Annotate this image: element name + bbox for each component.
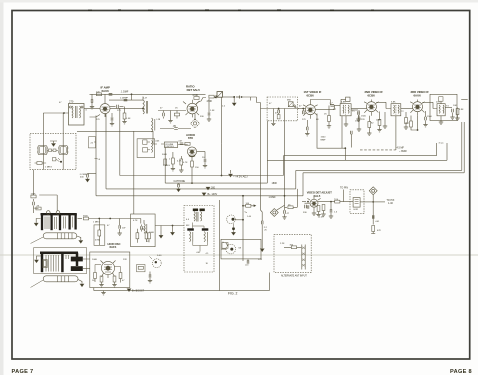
wire tuner out to V4 [298, 108, 306, 110]
hum adj label [229, 170, 249, 179]
svg-text:1 MEG: 1 MEG [45, 167, 52, 169]
svg-text:470K: 470K [95, 239, 101, 241]
svg-text:47: 47 [160, 108, 163, 110]
svg-text:TO PIN: TO PIN [340, 186, 348, 189]
coil top T6 [193, 209, 205, 222]
box on top T3 [341, 97, 350, 104]
svg-text:47: 47 [299, 106, 302, 108]
winding blob B [71, 266, 83, 271]
det out wire [318, 201, 335, 203]
wire width box to TP vertical [360, 201, 373, 203]
capacitor .1DMF on line [109, 91, 129, 96]
coil pair T7b [202, 228, 209, 241]
svg-text:270: 270 [436, 101, 440, 103]
coil L2 ratio det secondary [152, 118, 155, 132]
assorted value labels [59, 98, 464, 282]
svg-text:L27: L27 [144, 98, 148, 100]
svg-text:2.2K: 2.2K [319, 217, 324, 219]
svg-text:1500: 1500 [427, 116, 433, 118]
T4 bottom drop [395, 116, 397, 150]
width adjust dashed box [350, 190, 364, 214]
svg-text:470K: 470K [207, 100, 213, 103]
V4 grid parts below [305, 120, 309, 136]
tube V6 3rd video IF [410, 100, 425, 116]
tuner vertical down (to bottom section) [284, 109, 286, 196]
tube V3 audio 6T8 [187, 147, 196, 160]
svg-text:L20: L20 [245, 265, 249, 267]
cap 20MF [202, 152, 207, 168]
wire coil L2 to sound box [77, 130, 153, 132]
vert x219.4 [218, 200, 220, 291]
top link wires IF row [310, 100, 330, 106]
svg-text:470K: 470K [193, 94, 199, 97]
svg-text:T1: T1 [352, 111, 355, 113]
resistor 22 on L4 riser [89, 137, 101, 161]
resistor on audio takeoff [207, 95, 215, 103]
out wire right [461, 99, 468, 101]
AFC hanging resistors [94, 273, 122, 287]
svg-text:300: 300 [211, 186, 216, 189]
svg-text:6CB6: 6CB6 [368, 94, 376, 98]
AFC upper box [131, 214, 156, 247]
svg-text:CONTROL: CONTROL [165, 146, 174, 148]
twin lead symbol [302, 245, 305, 270]
cap on TP2 vertical [372, 215, 374, 219]
svg-text:1K: 1K [206, 263, 209, 265]
wire vertical left feed [42, 113, 44, 170]
wire plug to arrow [223, 96, 235, 98]
IF can T3 [340, 104, 351, 116]
left hook gnd bars2 [35, 256, 41, 263]
diamond TP3 [270, 209, 278, 217]
res 100K [137, 265, 145, 272]
cap .05 lower [160, 125, 191, 130]
svg-text:4.7: 4.7 [333, 109, 337, 111]
scan edge band top [0, 0, 478, 3]
diamond TP2 [369, 187, 377, 195]
capacitor .01 above T1 [90, 94, 94, 109]
ground arrow below dot [232, 97, 236, 106]
components right of V1: cap 270 [110, 105, 124, 109]
junction on L4 [284, 195, 286, 197]
svg-text:L6: L6 [98, 159, 101, 161]
svg-text:4.7K: 4.7K [183, 162, 188, 164]
svg-text:.1 CMF: .1 CMF [79, 174, 87, 176]
TP2 vertical [372, 195, 374, 225]
bus L2 riser from audio [164, 148, 166, 184]
yoke enclosure thin box [34, 248, 87, 274]
svg-text:2.2MMF: 2.2MMF [120, 97, 129, 99]
wire V1 plate up [104, 94, 106, 103]
svg-text:47: 47 [287, 213, 290, 215]
cap and res between coil and tube [158, 111, 186, 119]
svg-text:3 sec: 3 sec [439, 143, 445, 145]
svg-text:PAGE 7: PAGE 7 [12, 369, 34, 375]
wire res to width box [340, 201, 353, 203]
diag wire TP3 to tuner vert [277, 205, 285, 210]
peaking res [334, 199, 340, 203]
wire down to bus [221, 144, 223, 176]
diodes between sockets [47, 149, 58, 152]
svg-text:6T8: 6T8 [188, 136, 193, 140]
svg-text:10K: 10K [453, 105, 457, 107]
wire across afc top [131, 219, 144, 224]
svg-text:4.5: 4.5 [186, 219, 190, 221]
bus L3 [106, 122, 462, 189]
transformer T1 sound IF can [69, 104, 85, 126]
svg-text:270: 270 [69, 99, 74, 103]
cap 1500 after T3 [351, 110, 361, 123]
svg-text:.1 DMF: .1 DMF [121, 91, 129, 94]
pot symbol top [50, 141, 57, 146]
resistor 1.5K below right [122, 107, 126, 124]
cap with gnd [148, 272, 152, 283]
shield box with pot [137, 139, 155, 158]
gnd mid [159, 225, 174, 238]
node + cap after tuner [302, 108, 304, 115]
resistor on TP2 vertical [371, 226, 375, 234]
bus L2 cathode line [165, 121, 447, 183]
socket view S1 [227, 215, 252, 224]
input staircase wire [241, 97, 267, 109]
svg-text:L28: L28 [157, 119, 161, 121]
wire into bars [33, 208, 35, 213]
cyl C1 right tail [77, 236, 83, 243]
bus L4 riser [90, 116, 97, 196]
svg-text:22K: 22K [123, 259, 127, 261]
cyl C2 leader [31, 280, 44, 288]
wire left of T1 [43, 112, 68, 114]
wire T3 to V5 [351, 108, 366, 110]
V5 grid cap [357, 110, 366, 131]
coil turns between bars [45, 217, 73, 230]
volume control box [164, 142, 177, 148]
resistor drop 2 [169, 152, 175, 171]
svg-text:1500: 1500 [321, 137, 327, 139]
coil inside [144, 224, 147, 234]
res 300 inside [284, 245, 301, 249]
node dot T1 left [63, 112, 65, 114]
svg-text:270: 270 [117, 110, 121, 112]
wire V1 out to coils [110, 108, 143, 110]
node on bus1 [221, 175, 223, 177]
svg-text:1500: 1500 [355, 121, 361, 123]
AFC tube [101, 261, 116, 279]
svg-text:6AL5: 6AL5 [314, 194, 321, 198]
svg-text:330: 330 [303, 212, 307, 214]
svg-text:100K: 100K [149, 232, 155, 234]
svg-text:.001: .001 [196, 252, 201, 254]
dot input [241, 96, 243, 98]
svg-text:CATHODE: CATHODE [174, 180, 186, 183]
trap dashed box [184, 206, 214, 273]
tuner vert lower with cap and gnd [282, 196, 289, 219]
svg-text:1 MEG: 1 MEG [163, 165, 170, 167]
bus left cap feed [79, 173, 96, 181]
cyl C2 tail [78, 280, 84, 287]
label CATHODE on L2 [173, 179, 185, 183]
AFC lower box [90, 252, 130, 288]
cyl C1 left leader diagonal [31, 237, 44, 244]
scan edge band left [0, 0, 4, 375]
svg-text:B+ BOOST: B+ BOOST [132, 290, 145, 293]
svg-text:6CB6: 6CB6 [307, 94, 315, 98]
cap pair [141, 225, 143, 232]
tuner mixer box [288, 102, 296, 108]
svg-text:47K: 47K [377, 230, 381, 232]
bus L1 riser [119, 108, 121, 176]
socket view S3 [150, 257, 162, 268]
bus L1 [120, 143, 437, 176]
V4 cathode U loop [317, 114, 352, 161]
tube V7 video det [307, 197, 320, 211]
cylinder C1 [43, 233, 77, 239]
svg-text:ALTERNATE ANT INPUT: ALTERNATE ANT INPUT [281, 275, 307, 278]
svg-text:500K: 500K [162, 154, 168, 156]
wire T4 to V6 [401, 108, 413, 110]
output transformer bars [41, 214, 77, 230]
3500 resistor wire right [78, 216, 131, 220]
resistor drop 3 [177, 156, 184, 172]
grounds under IF row [344, 116, 443, 127]
res between bars2 [43, 260, 48, 268]
label B+ BOOST [127, 289, 144, 293]
470K box vertical [94, 218, 105, 246]
V5 screen parts [376, 112, 387, 132]
vertical x262.2 cap and gnd end [260, 221, 267, 252]
svg-text:2.2: 2.2 [264, 227, 268, 229]
winding blob A [71, 257, 83, 262]
wire V5 to T4 [376, 102, 391, 108]
svg-text:HOR: HOR [354, 209, 359, 211]
svg-text:300: 300 [290, 245, 294, 247]
det diode parts right [445, 108, 459, 121]
IF can T4 [391, 104, 401, 116]
svg-text:.5: .5 [85, 110, 88, 112]
tube V4 1st video IF [303, 100, 318, 119]
wire plate right [197, 151, 205, 153]
dashed box tuner [267, 97, 298, 121]
det cluster small parts [302, 201, 326, 217]
label 300 on L3 [206, 186, 215, 189]
caps .047 [178, 140, 190, 145]
label B+140V on L4 [202, 193, 217, 196]
plug P1 phono [214, 92, 223, 99]
svg-text:270: 270 [302, 119, 306, 121]
svg-text:6AU6: 6AU6 [102, 89, 110, 93]
svg-text:6.8K: 6.8K [341, 101, 346, 103]
page crease line [0, 254, 478, 256]
alternate antenna dashed box [274, 234, 311, 272]
wire S2 left to box edge [221, 243, 228, 250]
svg-text:400: 400 [80, 177, 84, 179]
wire T1 to V1 [84, 108, 100, 110]
cap in column [33, 199, 35, 208]
svg-text:82: 82 [371, 123, 374, 125]
TO PIN drop [340, 186, 348, 201]
svg-text:330: 330 [200, 116, 204, 118]
svg-text:150K: 150K [31, 194, 37, 196]
svg-text:47: 47 [122, 280, 125, 282]
svg-text:1-25: 1-25 [258, 259, 263, 261]
b+ boost bottom line [94, 273, 270, 291]
res boxes inside [136, 229, 150, 243]
svg-text:4.7K: 4.7K [133, 220, 138, 222]
svg-text:~ 3MW: ~ 3MW [399, 150, 407, 153]
wire to plug [214, 96, 216, 97]
vert x297.4 lower [296, 189, 298, 207]
resistor 220 on line [96, 91, 102, 95]
svg-text:6.8K: 6.8K [391, 101, 396, 103]
svg-text:220: 220 [361, 119, 365, 121]
svg-text:1-40: 1-40 [388, 202, 393, 205]
resistor 2K [34, 206, 42, 210]
V4 plate cap 4.7 [315, 102, 334, 109]
wires in AFC box [95, 265, 121, 273]
S1 wire right and main drop x243 [235, 195, 247, 239]
vertical from plug down to audio [221, 97, 223, 144]
svg-text:100: 100 [246, 203, 250, 205]
svg-text:.001: .001 [375, 221, 380, 223]
svg-text:DET 6AL5: DET 6AL5 [187, 88, 201, 92]
cathode resistor [191, 160, 194, 184]
input branch vertical down [261, 109, 263, 222]
tuner gnd drop 1 [271, 109, 275, 126]
V4 screen res 1K [324, 106, 331, 129]
resistor to arrow mid [242, 203, 256, 207]
box around S2 [221, 239, 263, 266]
4.5MF trap line [360, 146, 407, 152]
svg-text:68: 68 [316, 119, 319, 121]
cap 1W [118, 219, 127, 236]
wire audio line y94.3 [90, 93, 206, 95]
cap 1.5 to gnd [329, 202, 338, 219]
tick on input wire [250, 97, 252, 101]
svg-text:MC: MC [186, 225, 190, 227]
left hook gnd bars1 [34, 219, 40, 226]
svg-text:MIX: MIX [287, 100, 291, 102]
svg-text:150: 150 [195, 167, 199, 169]
IF can T5 [437, 97, 445, 116]
svg-text:1 DMF: 1 DMF [269, 196, 277, 199]
wire afc to trap [155, 226, 184, 232]
V1 cathode stub [96, 114, 106, 117]
svg-text:25: 25 [264, 230, 267, 232]
svg-text:6AU6: 6AU6 [414, 94, 422, 98]
V6 screen gnd [423, 111, 427, 127]
svg-text:47: 47 [107, 225, 110, 227]
svg-text:47: 47 [269, 103, 272, 105]
resistor bottom left [35, 162, 53, 169]
tuner cap branch [275, 108, 280, 119]
svg-text:.047: .047 [178, 140, 183, 142]
svg-text:25: 25 [288, 205, 291, 207]
svg-text:3.9K: 3.9K [459, 109, 464, 111]
cap below V1 to ground [110, 113, 114, 126]
svg-text:.005: .005 [155, 141, 160, 143]
svg-text:1.5K: 1.5K [126, 118, 131, 120]
wire V4 to T3 [334, 105, 340, 109]
res 25 right of tuner vert [285, 205, 298, 209]
svg-text:4.7K: 4.7K [177, 160, 182, 162]
svg-text:1W: 1W [122, 227, 126, 229]
svg-text:68: 68 [239, 247, 242, 249]
wire V6 to T5 [423, 102, 438, 108]
tube V2 ratio det 6AL5 [183, 100, 200, 118]
bus L2 cap gnd [177, 183, 181, 192]
wire through tuner [267, 108, 299, 110]
wire down into bars [39, 195, 57, 211]
S1 below cap and gnd [232, 224, 236, 236]
V5 cathode parts [367, 116, 371, 136]
diamond test point TP1 [190, 114, 199, 128]
junction on wire [142, 108, 144, 110]
trap labels [206, 253, 210, 265]
component column left: resistor 150K [31, 194, 37, 198]
res small [145, 231, 148, 242]
wire into tube [153, 131, 188, 145]
entry loops on top [47, 211, 60, 215]
svg-text:1.5K: 1.5K [210, 110, 215, 112]
TO PIX stub [373, 199, 394, 205]
coil L1 ratio det primary [143, 97, 148, 114]
coil pair T7a [187, 228, 194, 241]
dashed box sound section [30, 133, 76, 169]
svg-text:1-40: 1-40 [247, 216, 252, 218]
scan nicks on top border [88, 9, 374, 10]
wire box bottom [32, 170, 34, 195]
junction dot det [330, 201, 332, 203]
resistor 470K label top [193, 94, 200, 99]
svg-text:270: 270 [96, 119, 100, 121]
svg-text:FIG. 2: FIG. 2 [228, 292, 238, 296]
svg-text:22: 22 [91, 143, 94, 145]
svg-text:47: 47 [59, 102, 62, 104]
node dot [131, 93, 133, 95]
bottom middle parts [53, 158, 63, 163]
power transformer bars 2 [40, 253, 78, 273]
tube V5 2nd video IF [364, 100, 379, 116]
width coil box [353, 198, 360, 211]
svg-text:1: 1 [169, 158, 171, 160]
trap internal wires [193, 223, 208, 252]
svg-text:T2: T2 [401, 111, 404, 113]
bus L3 riser from V1 cathode [105, 114, 107, 189]
socket box A [37, 146, 48, 155]
svg-text:100K: 100K [92, 259, 98, 261]
vertical x209 with cap to gnd [207, 99, 211, 122]
svg-text:B+ 140V: B+ 140V [208, 193, 218, 196]
neutralizing cap wire y100 [109, 94, 143, 101]
arrow joint [236, 96, 240, 99]
gnd on boost line [101, 291, 105, 295]
svg-text:6AF4: 6AF4 [110, 245, 117, 249]
svg-text:1K: 1K [175, 108, 178, 110]
4th can outer box [430, 94, 457, 120]
junction dot on wire [109, 218, 111, 220]
tube V1 IF amp 6AU6 [100, 104, 110, 117]
wire det out up right [196, 98, 206, 105]
V6 cathode parts [406, 116, 419, 131]
T1 secondary vertical through box [62, 113, 64, 170]
junction dot [233, 96, 235, 98]
svg-text:2.2K: 2.2K [280, 243, 285, 245]
junction at TP vertical [372, 201, 374, 203]
ground between [168, 111, 172, 123]
svg-text:3500: 3500 [83, 216, 89, 218]
svg-text:1.5: 1.5 [334, 212, 338, 214]
socket box B [58, 146, 69, 155]
